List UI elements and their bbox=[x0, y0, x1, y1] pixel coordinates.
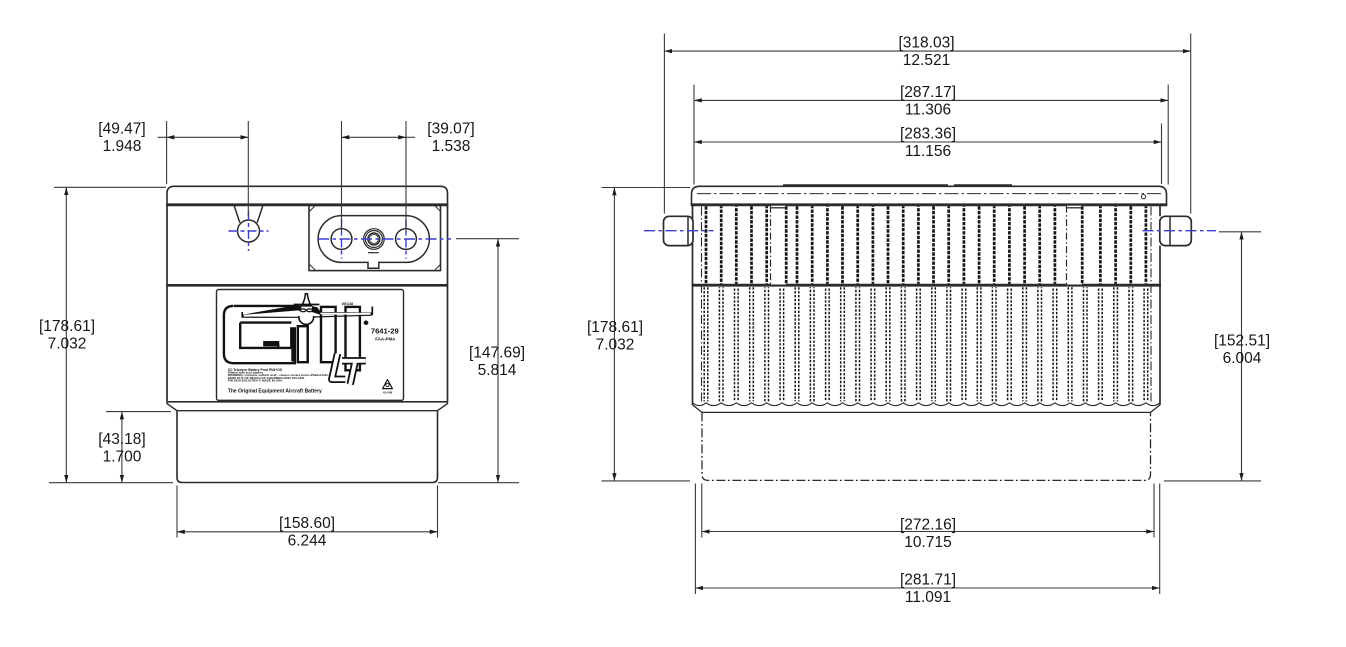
svg-text:[49.47]: [49.47] bbox=[98, 121, 145, 138]
svg-text:5.814: 5.814 bbox=[478, 362, 517, 379]
svg-text:11.306: 11.306 bbox=[905, 101, 951, 118]
svg-text:10.715: 10.715 bbox=[904, 534, 951, 551]
svg-text:[287.17]: [287.17] bbox=[900, 84, 956, 101]
svg-text:[272.16]: [272.16] bbox=[900, 516, 956, 533]
svg-text:[318.03]: [318.03] bbox=[898, 35, 954, 52]
svg-text:7641-29: 7641-29 bbox=[371, 327, 399, 336]
svg-text:[152.51]: [152.51] bbox=[1214, 333, 1270, 350]
svg-text:[158.60]: [158.60] bbox=[279, 515, 335, 532]
svg-text:7.032: 7.032 bbox=[48, 335, 87, 352]
svg-text:FAA-PMA: FAA-PMA bbox=[375, 336, 396, 341]
svg-text:1.700: 1.700 bbox=[103, 448, 142, 465]
svg-text:12.521: 12.521 bbox=[903, 52, 950, 69]
svg-text:[178.61]: [178.61] bbox=[587, 319, 643, 336]
svg-text:[283.36]: [283.36] bbox=[900, 125, 956, 142]
svg-text:1.538: 1.538 bbox=[432, 138, 471, 155]
svg-text:[178.61]: [178.61] bbox=[39, 318, 95, 335]
svg-text:The Original Equipment Aircraf: The Original Equipment Aircraft Battery bbox=[228, 388, 322, 394]
svg-text:1.948: 1.948 bbox=[103, 138, 142, 155]
svg-text:[39.07]: [39.07] bbox=[427, 121, 474, 138]
svg-text:41-048: 41-048 bbox=[383, 390, 393, 394]
svg-text:[43.18]: [43.18] bbox=[98, 431, 145, 448]
svg-text:[281.71]: [281.71] bbox=[900, 571, 956, 588]
svg-text:P/N 9750-E0210 REV-C MADE IN U: P/N 9750-E0210 REV-C MADE IN USA bbox=[228, 378, 283, 382]
svg-text:6.004: 6.004 bbox=[1223, 350, 1262, 367]
svg-text:11.156: 11.156 bbox=[905, 143, 951, 160]
svg-text:6.244: 6.244 bbox=[288, 533, 327, 550]
svg-text:[147.69]: [147.69] bbox=[469, 344, 525, 361]
svg-text:7.032: 7.032 bbox=[596, 337, 635, 354]
svg-text:11.091: 11.091 bbox=[905, 589, 951, 606]
svg-text:8GC48: 8GC48 bbox=[342, 302, 353, 306]
